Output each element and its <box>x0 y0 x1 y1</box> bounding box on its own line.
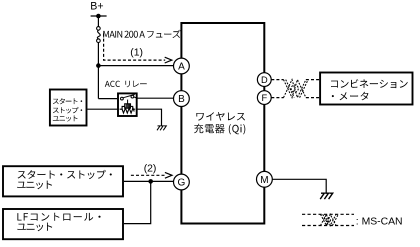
wire relay coil to ground <box>137 109 162 125</box>
box combination meter <box>320 73 412 105</box>
dashed current-flow line (1) <box>104 34 166 61</box>
wire to terminal A <box>98 65 174 67</box>
dashed wire twisted pair to meter (lower) <box>306 97 320 99</box>
wire start-stop unit to terminal G <box>124 180 174 182</box>
dashed wire twisted pair to meter (upper) <box>306 79 320 81</box>
relay coil <box>127 100 129 104</box>
box wireless charger (Qi) <box>181 23 264 224</box>
twisted pair symbol (MS-CAN) <box>284 80 309 98</box>
svg-text:D: D <box>261 75 268 85</box>
wire relay to terminal B <box>137 97 174 99</box>
ground (relay coil) <box>157 126 166 130</box>
label: start-stop unit small box text <box>53 98 82 104</box>
arrowhead (1) <box>165 57 172 63</box>
svg-text:M: M <box>260 175 268 186</box>
label: MAIN 200 A fuse <box>103 30 180 38</box>
wire B+ into relay coil/contact <box>98 98 117 100</box>
relay contact (switch) <box>121 97 124 100</box>
terminal B <box>174 91 190 107</box>
box start-stop unit (upper) <box>50 90 87 126</box>
svg-text:F: F <box>261 93 267 103</box>
label: wireless charger (Qi) <box>196 112 245 121</box>
label: start-stop unit box text <box>18 170 112 179</box>
legend: twisted pair = MS-CAN <box>302 213 354 215</box>
svg-text:(1): (1) <box>130 47 143 58</box>
label: combination meter <box>331 79 408 88</box>
label: LF control unit box text <box>17 213 100 221</box>
wire LF control unit joining G wire <box>124 181 151 223</box>
svg-text:(2): (2) <box>144 163 157 174</box>
arrowhead (2) <box>165 172 172 178</box>
junction dot at B+ bar <box>96 14 101 19</box>
svg-text:B: B <box>178 94 185 105</box>
dashed current-flow line (2) <box>131 174 165 176</box>
relay box <box>118 93 137 116</box>
terminal F <box>257 91 271 105</box>
wire M to ground <box>272 179 326 193</box>
svg-text:: MS-CAN: : MS-CAN <box>356 217 403 228</box>
wire B+ down to fuse <box>97 16 99 27</box>
svg-text:A: A <box>178 62 185 73</box>
terminal M <box>257 171 273 187</box>
svg-text:B+: B+ <box>90 1 103 13</box>
terminal D <box>257 73 271 87</box>
box LF control unit <box>3 209 123 239</box>
wire relay coil to start-stop unit <box>88 108 119 110</box>
label: ACC relay <box>105 81 120 87</box>
junction dot to A branch <box>96 63 101 68</box>
wire fuse down to relay <box>97 43 99 99</box>
ground (charger M) <box>320 193 333 199</box>
junction dot on G wire <box>148 179 153 184</box>
terminal A <box>174 58 190 74</box>
dashed wire D to twisted pair <box>271 79 283 81</box>
fuse MAIN 200 A (wavy fusible link) <box>97 27 101 31</box>
terminal G <box>174 174 190 190</box>
box start-stop unit (lower) <box>3 166 123 196</box>
dashed wire F to twisted pair <box>271 97 283 99</box>
svg-text:G: G <box>178 178 186 189</box>
